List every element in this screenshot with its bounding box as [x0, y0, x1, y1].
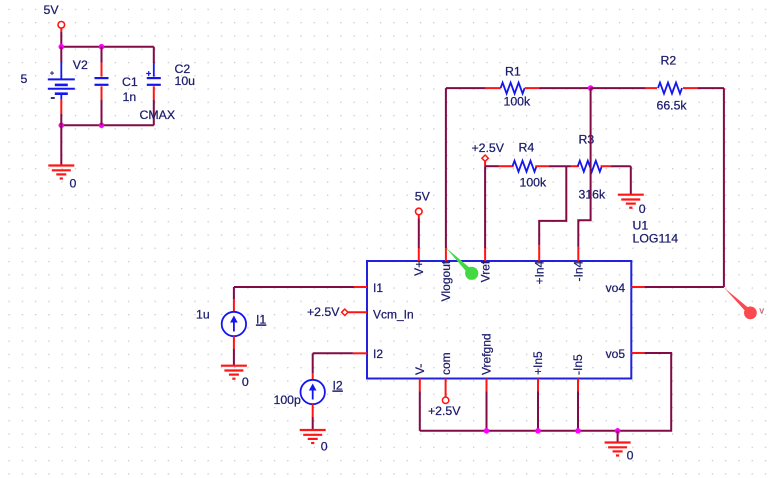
svg-text:I1: I1 [256, 313, 266, 327]
wire -In5 to bus [577, 392, 579, 431]
junction bus ground [615, 428, 621, 434]
value 5 [21, 72, 28, 86]
value 66.5k (R2) [657, 99, 688, 113]
pin I1 stub [354, 286, 367, 288]
pin vo4 stub [631, 286, 644, 288]
wire R4 node to +In4 (jog) [539, 166, 566, 245]
svg-text:100p: 100p [274, 393, 302, 407]
pin label Vlogout [439, 260, 453, 301]
value 100k (R1) [504, 95, 532, 109]
resistor R2 [591, 83, 724, 94]
ground 0 (I1) [221, 366, 247, 379]
capacitor C1 [95, 47, 109, 126]
pin label I2 [373, 347, 383, 361]
svg-text:+In5: +In5 [531, 351, 545, 375]
pin Vref stub [484, 248, 486, 261]
ground 0 (I2) [300, 430, 326, 443]
pin -In5 stub [577, 379, 579, 392]
label C2 [175, 62, 191, 76]
svg-text:0: 0 [639, 202, 646, 216]
label CMAX [140, 108, 176, 122]
pin Vrefgnd stub [486, 379, 488, 392]
wire vo5 to bottom bus [618, 353, 672, 431]
svg-text:+2.5V: +2.5V [307, 305, 340, 319]
label R3 [579, 133, 595, 147]
pin I2 stub [353, 352, 367, 354]
label R1 [505, 65, 521, 79]
label 0 (R3 ground) [639, 202, 646, 216]
svg-text:1n: 1n [123, 90, 137, 104]
pin label -In5 [571, 354, 585, 375]
label R4 [519, 141, 535, 155]
value 100p (I2) [274, 393, 302, 407]
ground 0 (R3) [618, 195, 644, 208]
svg-text:1u: 1u [196, 308, 210, 322]
label +2.5V (com) [428, 404, 461, 418]
battery V2 minus mark [51, 97, 55, 99]
svg-text:10u: 10u [175, 74, 196, 88]
wire Vlogout riser to R1 [445, 88, 447, 248]
pin label +In4 [532, 260, 546, 284]
svg-text:CMAX: CMAX [140, 108, 176, 122]
battery V2 plus mark [50, 71, 54, 78]
junction bottom bus at battery [59, 123, 65, 129]
node 5V label (V+ supply) [415, 190, 431, 204]
label I2 [333, 379, 343, 393]
svg-text:100k: 100k [520, 176, 548, 190]
capacitor C2 (polarized) [147, 47, 161, 126]
wire R2 right down to vo4 [723, 88, 725, 287]
svg-text:66.5k: 66.5k [657, 99, 688, 113]
junction top bus at battery [59, 44, 65, 50]
wire Vref riser [484, 166, 486, 248]
svg-text:C1: C1 [122, 75, 138, 89]
value 1u (I1) [196, 308, 210, 322]
svg-text:-In5: -In5 [571, 354, 585, 375]
terminal +2.5V diamond (R4 input) [472, 141, 505, 161]
resistor R1 [446, 83, 591, 94]
value 100k (R4) [520, 176, 548, 190]
junction R1-R2 node [588, 85, 594, 91]
wire vo4 to output node [644, 286, 724, 288]
wire bottom bus [420, 430, 618, 432]
pin label vo5 [606, 347, 626, 361]
wire battery bus to ground [60, 125, 62, 165]
svg-text:com: com [439, 352, 453, 375]
svg-text:R3: R3 [579, 133, 595, 147]
pin Vlogout stub [445, 248, 447, 261]
svg-text:I2: I2 [373, 347, 383, 361]
wire +In5 to bus [537, 392, 539, 431]
wire bus to ground [617, 431, 619, 443]
wire top bus [61, 46, 154, 48]
wire I1 to pin I1 [234, 286, 354, 288]
node 5V label (top-left) [44, 3, 60, 17]
value 10u [175, 74, 196, 88]
pin -In4 stub [577, 247, 579, 261]
pin V- stub [419, 379, 421, 392]
label U1 [633, 219, 649, 233]
svg-text:0: 0 [242, 375, 249, 389]
terminal +2.5V diamond (Vcm_In) [307, 305, 348, 319]
current source I1 [222, 287, 246, 366]
svg-text:R4: R4 [519, 141, 535, 155]
pin Vcm_In stub [348, 311, 367, 313]
svg-text:vo4: vo4 [606, 281, 626, 295]
svg-text:v: v [760, 306, 765, 316]
svg-text:-In4: -In4 [572, 260, 586, 281]
current source I2 [301, 353, 325, 430]
pin label V- [413, 364, 427, 375]
svg-text:0: 0 [627, 449, 634, 463]
svg-text:+2.5V: +2.5V [428, 404, 461, 418]
pin +In5 stub [537, 379, 539, 392]
label LOG114 [633, 232, 679, 246]
ground 0 (bottom bus) [605, 443, 631, 456]
svg-text:Vcm_In: Vcm_In [373, 308, 414, 322]
capacitor C2 plus mark [146, 69, 151, 79]
pin V+ stub [418, 248, 420, 261]
svg-text:+: + [146, 69, 151, 79]
wire 5V terminal to top bus [60, 28, 62, 47]
svg-text:+: + [50, 71, 54, 78]
pin label vo4 [606, 281, 626, 295]
label V2 [73, 58, 88, 72]
label 0 (I2 ground) [321, 440, 328, 454]
wire +2.5V diamond down to row [484, 161, 486, 166]
terminal 5V circle [58, 22, 65, 29]
svg-text:V2: V2 [73, 58, 88, 72]
pin label I1 [373, 281, 383, 295]
label I1 [256, 313, 266, 327]
junction bus +In5 [535, 428, 541, 434]
svg-text:U1: U1 [633, 219, 649, 233]
svg-text:Vrefgnd: Vrefgnd [480, 333, 494, 375]
svg-text:Vlogout: Vlogout [439, 260, 453, 301]
svg-text:0: 0 [70, 177, 77, 191]
label C1 [122, 75, 138, 89]
terminal 5V circle (V+) [416, 208, 423, 215]
svg-text:I2: I2 [333, 379, 343, 393]
resistor R4 [485, 161, 570, 172]
svg-text:0: 0 [321, 440, 328, 454]
svg-text:5: 5 [21, 72, 28, 86]
ground 0 (supply) [48, 166, 74, 179]
svg-text:+In4: +In4 [532, 260, 546, 284]
value 1n [123, 90, 137, 104]
pin +In4 stub [538, 245, 540, 261]
pin label -In4 [572, 260, 586, 281]
pin label V+ [412, 261, 426, 276]
svg-text:I1: I1 [373, 281, 383, 295]
pin label Vcm_In [373, 308, 414, 322]
label 0 (supply ground) [70, 177, 77, 191]
probe green (Vlogout) [446, 248, 479, 280]
pin vo5 stub [631, 352, 644, 354]
value 316k (R3) [579, 188, 607, 202]
svg-text:R2: R2 [661, 54, 677, 68]
op-amp U1 LOG114 body [367, 261, 631, 379]
junction bus -In5 [575, 428, 581, 434]
wire 5V terminal to V+ [418, 215, 420, 248]
terminal +2.5V circle (com) [442, 397, 448, 403]
battery V2 [48, 47, 75, 126]
svg-text:V+: V+ [412, 261, 426, 276]
svg-text:vo5: vo5 [606, 347, 626, 361]
pin label +In5 [531, 351, 545, 375]
label 0 (bottom ground) [627, 449, 634, 463]
svg-text:Vref: Vref [478, 260, 492, 282]
label 0 (I1 ground) [242, 375, 249, 389]
svg-text:R1: R1 [505, 65, 521, 79]
junction bus Vrefgnd [484, 428, 490, 434]
pin label Vrefgnd [480, 333, 494, 375]
wire Vrefgnd to bus [486, 392, 488, 431]
probe V (red voltage probe) [724, 288, 764, 320]
svg-text:316k: 316k [579, 188, 607, 202]
svg-text:5V: 5V [44, 3, 60, 17]
junction top bus at C1 [99, 44, 105, 50]
pin label Vref [478, 260, 492, 282]
wire I2 to pin I2 [313, 352, 353, 354]
wire R3 to ground [630, 166, 632, 195]
wire R1R2 node to -In4 (jog) [578, 88, 590, 247]
svg-text:100k: 100k [504, 95, 532, 109]
pin label com [439, 352, 453, 375]
svg-text:V-: V- [413, 364, 427, 375]
junction bottom bus at C1 [99, 123, 105, 129]
label R2 [661, 54, 677, 68]
svg-text:5V: 5V [415, 190, 431, 204]
wire V- to bus [419, 392, 421, 431]
svg-text:LOG114: LOG114 [633, 232, 679, 246]
svg-text:+2.5V: +2.5V [472, 141, 505, 155]
wire bottom bus [61, 124, 154, 126]
resistor R3 [571, 161, 631, 172]
pin com stub [445, 379, 447, 398]
